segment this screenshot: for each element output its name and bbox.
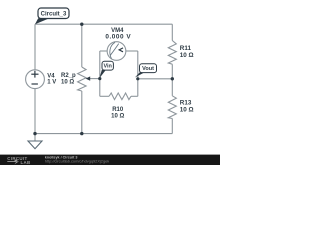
svg-text:0.000 V: 0.000 V <box>105 33 131 40</box>
svg-text:Vout: Vout <box>142 66 154 72</box>
svg-text:10 Ω: 10 Ω <box>111 113 124 119</box>
wire pot top lead <box>81 24 83 67</box>
resistor R2_p (potentiometer) zigzag <box>78 67 87 91</box>
wire left rail upper (top corner to V4 top) <box>34 24 36 70</box>
svg-text:R2_p: R2_p <box>61 73 76 79</box>
junction dot ground tap <box>33 132 36 135</box>
svg-text:http://circuitlab.com/c/hdvgq9: http://circuitlab.com/c/hdvgq92Xj2gek <box>45 158 110 163</box>
resistor R10 zigzag <box>109 93 131 100</box>
wire R10 right stub <box>131 95 138 97</box>
svg-text:R10: R10 <box>112 107 124 113</box>
svg-text:Vin: Vin <box>103 64 112 70</box>
svg-text:10 Ω: 10 Ω <box>61 80 74 86</box>
svg-text:Circuit_3: Circuit_3 <box>41 11 67 17</box>
node flag Vin <box>102 61 113 70</box>
wire R13 top lead <box>171 79 173 96</box>
node flag Vin tail <box>99 70 105 78</box>
node flag Vout <box>140 64 157 73</box>
svg-text:10 Ω: 10 Ω <box>180 52 194 59</box>
wire Vout node to R11/R13 junction <box>138 78 173 80</box>
junction dot Vout node <box>136 77 139 80</box>
potentiometer R2_p wiper arrow <box>86 76 91 80</box>
wire R10 left stub <box>100 95 109 97</box>
footer CircuitLab logo <box>7 156 30 165</box>
footer bar <box>0 155 220 165</box>
ground <box>28 141 42 149</box>
callout Circuit_3 tail <box>35 18 49 24</box>
wire wiper to Vin node <box>89 78 100 80</box>
wire R13 bottom lead <box>171 119 173 134</box>
wire Vin vertical (voltmeter left lead down to R10) <box>99 51 101 96</box>
wire top rail <box>35 23 172 25</box>
svg-text:R11: R11 <box>180 45 192 52</box>
junction dot pot top <box>80 23 83 26</box>
svg-text:R13: R13 <box>180 99 192 106</box>
voltmeter VM4 <box>107 42 126 61</box>
wire voltmeter left lead horizontal <box>100 50 108 52</box>
junction dot Vin node <box>98 77 101 80</box>
wire left rail lower (V4 bottom to bottom rail) <box>34 88 36 133</box>
wire bottom rail <box>35 133 172 135</box>
wire voltmeter right lead horizontal <box>126 50 138 52</box>
resistor R11 zigzag <box>168 41 176 65</box>
junction dot R11/R13 <box>171 77 174 80</box>
voltage source V4 <box>26 70 45 89</box>
svg-text:1 V: 1 V <box>47 80 56 86</box>
wire pot bottom lead <box>81 91 83 134</box>
junction dot pot bottom <box>80 132 83 135</box>
voltmeter needle arrowhead <box>119 48 123 52</box>
node flag Vout tail <box>135 72 144 77</box>
wire Vout vertical (voltmeter right lead down to R10) <box>137 51 139 96</box>
resistor R13 zigzag <box>168 96 176 119</box>
wire R11 top lead <box>171 24 173 40</box>
wire ground stub <box>34 134 36 141</box>
svg-text:LAB: LAB <box>21 160 31 165</box>
svg-text:10 Ω: 10 Ω <box>180 107 194 114</box>
wire R11 bottom lead to junction <box>171 64 173 79</box>
callout Circuit_3 <box>38 8 69 19</box>
